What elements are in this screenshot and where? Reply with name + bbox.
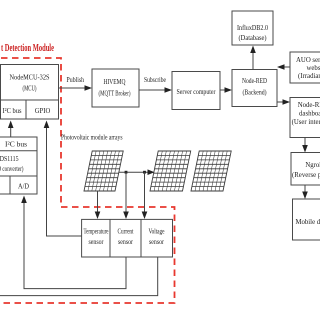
svg-text:sensor: sensor: [149, 239, 165, 246]
svg-text:Photovoltaic module arrays: Photovoltaic module arrays: [61, 133, 123, 142]
svg-text:ADS1115: ADS1115: [0, 155, 19, 163]
svg-text:(Irradiance d: (Irradiance d: [298, 73, 320, 80]
box ADS1115 (A/D converter): [0, 137, 37, 194]
box Node-RED dashboard (User interface) cut at right: [290, 98, 320, 138]
svg-text:NodeMCU-32S: NodeMCU-32S: [10, 73, 50, 82]
svg-text:Voltage: Voltage: [149, 229, 165, 236]
svg-text:Temperature: Temperature: [84, 229, 109, 236]
wire panel1 to panel2 connector: [119, 171, 149, 173]
wire panel1 down to temperature sensor: [97, 191, 99, 214]
svg-text:sensor: sensor: [89, 239, 105, 246]
wire junction B down to voltage sensor: [144, 172, 146, 214]
box server computer: [172, 72, 220, 110]
svg-text:(MQTT Broker): (MQTT Broker): [99, 90, 131, 98]
box AUO sensor website (Irradiance ...) cut at right: [290, 52, 320, 83]
svg-text:(User interface): (User interface): [292, 119, 320, 126]
solar panel 3: [191, 151, 231, 191]
wire voltage sensor off-canvas left: [0, 257, 158, 296]
box HIVEMQ (MQTT Broker): [92, 69, 139, 107]
svg-text:GPIO: GPIO: [35, 107, 51, 115]
wire junction A down to current sensor: [125, 172, 127, 214]
svg-text:Mobile device: Mobile device: [295, 219, 320, 226]
svg-text:A/D: A/D: [18, 183, 29, 191]
wire subscribe arrow: [139, 89, 166, 91]
svg-text:HIVEMQ: HIVEMQ: [104, 78, 127, 86]
solar panel 1: [84, 151, 123, 191]
svg-text:Ngrok: Ngrok: [305, 162, 320, 169]
svg-text:Node-RED: Node-RED: [242, 77, 267, 85]
svg-text:InfluxDB2.0: InfluxDB2.0: [237, 24, 268, 32]
svg-text:Current: Current: [118, 229, 134, 236]
svg-text:Publish: Publish: [67, 76, 85, 84]
wire node-red up to influxdb: [252, 51, 254, 70]
svg-text:Subscribe: Subscribe: [144, 76, 166, 84]
box sensors (temperature / current / voltage): [82, 219, 173, 257]
wire GPIO: temperature sensor to GPIO cell: [47, 127, 82, 236]
svg-text:(Reverse proxy): (Reverse proxy): [292, 172, 320, 179]
wire dashboard to ngrok arrow: [304, 138, 306, 148]
box Node-RED (Backend): [232, 70, 277, 107]
box InfluxDB2.0 (Database): [232, 11, 273, 45]
svg-text:t Detection Module: t Detection Module: [1, 43, 54, 54]
red dashed module boundary: [0, 58, 175, 303]
svg-text:sensor: sensor: [118, 239, 134, 246]
wire ngrok to mobile arrow: [304, 185, 306, 194]
wire AUO to node-red arrow: [283, 66, 290, 68]
svg-text:Server computer: Server computer: [177, 88, 216, 96]
solar panel 2: [150, 151, 191, 191]
svg-text:I²C bus: I²C bus: [3, 107, 22, 115]
box Ngrok (Reverse proxy) cut at right: [291, 153, 320, 186]
wire I2C: ADS top to I2C bus cell: [10, 126, 12, 137]
svg-text:(MCU): (MCU): [23, 84, 37, 93]
wire server to node-red arrow: [220, 89, 226, 91]
svg-text:(A/D converter): (A/D converter): [0, 165, 24, 173]
svg-text:I²C bus: I²C bus: [5, 141, 27, 149]
wire node-red to dashboard arrow: [277, 101, 284, 103]
svg-text:dashboard: dashboard: [299, 111, 320, 118]
junction dot A: [125, 171, 128, 174]
svg-text:Node-RED: Node-RED: [298, 102, 320, 109]
wire A/D: current sensor to A/D cell: [24, 201, 126, 289]
svg-text:AUO sensor d: AUO sensor d: [296, 57, 320, 64]
svg-text:(Backend): (Backend): [243, 89, 267, 97]
box NodeMCU-32S (MCU): [1, 65, 59, 120]
wire publish arrow: [59, 87, 87, 89]
box Mobile device cut at right: [293, 199, 320, 240]
svg-text:(Database): (Database): [239, 34, 268, 42]
junction dot B: [143, 171, 146, 174]
svg-text:website d: website d: [307, 65, 320, 72]
